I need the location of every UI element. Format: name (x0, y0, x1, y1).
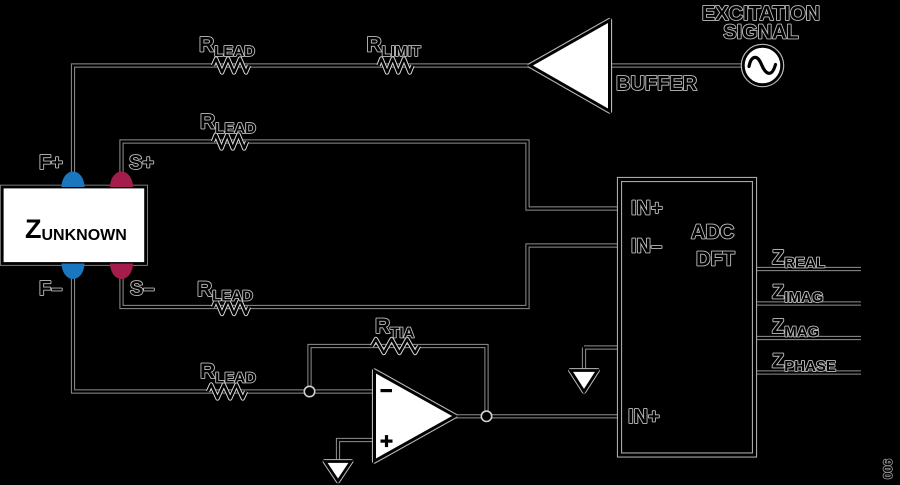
svg-text:F+: F+ (39, 152, 63, 174)
svg-text:IN–: IN– (631, 236, 662, 258)
svg-text:BUFFER: BUFFER (616, 73, 698, 95)
svg-text:S–: S– (130, 278, 154, 300)
svg-text:DFT: DFT (696, 249, 735, 271)
svg-text:ADC: ADC (691, 222, 734, 244)
svg-text:IN+: IN+ (631, 198, 663, 220)
svg-text:IN+: IN+ (628, 406, 660, 428)
svg-text:006: 006 (881, 459, 895, 479)
svg-text:S+: S+ (129, 152, 154, 174)
svg-text:SIGNAL: SIGNAL (723, 22, 799, 44)
svg-text:F–: F– (39, 278, 62, 300)
